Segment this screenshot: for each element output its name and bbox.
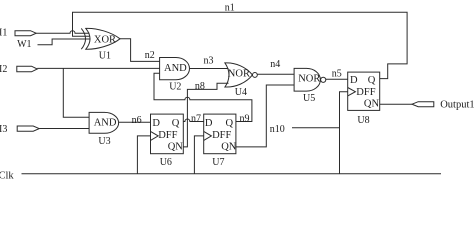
wire I1 to XOR with hop over n1 vertical (36, 31, 89, 34)
flip-flop U8 (348, 72, 380, 110)
input port I2 (17, 66, 38, 72)
input port I3 (17, 126, 39, 131)
and gate U3 (89, 112, 119, 133)
and gate U2 (160, 58, 190, 80)
wire clk riser to U6 clock (137, 136, 150, 174)
svg-text:Q: Q (368, 75, 376, 86)
svg-text:W1: W1 (17, 39, 31, 50)
svg-text:I1: I1 (0, 27, 7, 38)
svg-text:n9: n9 (240, 113, 250, 124)
svg-text:I3: I3 (0, 124, 7, 135)
svg-text:U4: U4 (235, 87, 247, 98)
wire clk riser to U7 clock (194, 136, 203, 174)
wire n6: U3 output to U6 D (119, 121, 151, 123)
wire n4: U4 output to U5 input 1 (257, 73, 294, 75)
svg-text:n7: n7 (191, 113, 201, 124)
svg-text:D: D (205, 118, 213, 129)
svg-text:n10: n10 (270, 124, 285, 135)
flip-flop U6 (151, 114, 184, 154)
svg-text:QN: QN (168, 142, 184, 153)
svg-text:n6: n6 (132, 115, 142, 126)
svg-text:D: D (152, 118, 160, 129)
svg-text:Q: Q (226, 118, 234, 129)
wire I3 to U3 input 2 (39, 128, 89, 130)
svg-text:D: D (350, 75, 358, 86)
svg-text:AND: AND (94, 117, 117, 128)
input port I1 (15, 31, 36, 36)
svg-text:U7: U7 (212, 157, 224, 168)
svg-text:n1: n1 (225, 2, 235, 13)
flip-flop U7 (204, 114, 237, 154)
svg-text:AND: AND (164, 63, 187, 74)
svg-text:DFF: DFF (212, 130, 231, 141)
wire n2: XOR output to U2 input 1 (120, 39, 160, 62)
svg-text:U8: U8 (357, 115, 369, 126)
nor gate U4 (225, 63, 257, 87)
svg-text:U3: U3 (98, 136, 110, 147)
svg-text:U6: U6 (160, 157, 172, 168)
svg-text:DFF: DFF (158, 130, 177, 141)
svg-text:Q: Q (172, 118, 180, 129)
svg-text:Clk: Clk (0, 171, 14, 182)
svg-text:n8: n8 (195, 81, 205, 92)
wire net n1 feedback: U8 Q up over top to XOR input (73, 12, 408, 78)
wire n10 stub (292, 127, 340, 129)
svg-text:QN: QN (364, 98, 380, 109)
svg-text:DFF: DFF (356, 87, 375, 98)
svg-text:n5: n5 (332, 69, 342, 80)
svg-text:NOR: NOR (228, 69, 250, 80)
wire clk riser to U8 clock with n10 stub (340, 92, 348, 174)
wire n7: U6 Q to U7 D with hop over n8 (183, 119, 203, 121)
xor gate U1 (81, 28, 120, 49)
svg-text:n2: n2 (145, 50, 155, 61)
svg-text:n4: n4 (270, 59, 280, 70)
svg-text:QN: QN (221, 142, 237, 153)
svg-text:n3: n3 (204, 56, 214, 67)
wire U8 QN to output port (380, 103, 412, 105)
wire I2 branch down to U3 input 1 (63, 68, 89, 117)
wire Clk line (22, 173, 442, 175)
svg-text:XOR: XOR (94, 34, 116, 45)
wire n9: U7 Q up and left (hop over n8) to U2 input 3 (154, 73, 252, 121)
wire n3: U2 output to U4 input 1 (190, 68, 229, 70)
svg-text:U5: U5 (303, 93, 315, 104)
wire W1 to XOR (38, 39, 90, 45)
wire n5: U5 output to U8 D (326, 78, 348, 80)
nor gate U5 (294, 68, 326, 91)
wire U7 QN up to U5 input 2 (236, 85, 294, 147)
output port Output1 (412, 102, 434, 107)
wire n8: U6 QN up to U4 input 2 (183, 83, 228, 147)
svg-text:U2: U2 (169, 82, 181, 93)
wire I2 to U2 input 2 (37, 67, 159, 69)
svg-text:U1: U1 (99, 50, 111, 61)
svg-text:I2: I2 (0, 64, 7, 75)
svg-text:NOR: NOR (298, 73, 320, 84)
svg-text:Output1: Output1 (440, 100, 474, 111)
